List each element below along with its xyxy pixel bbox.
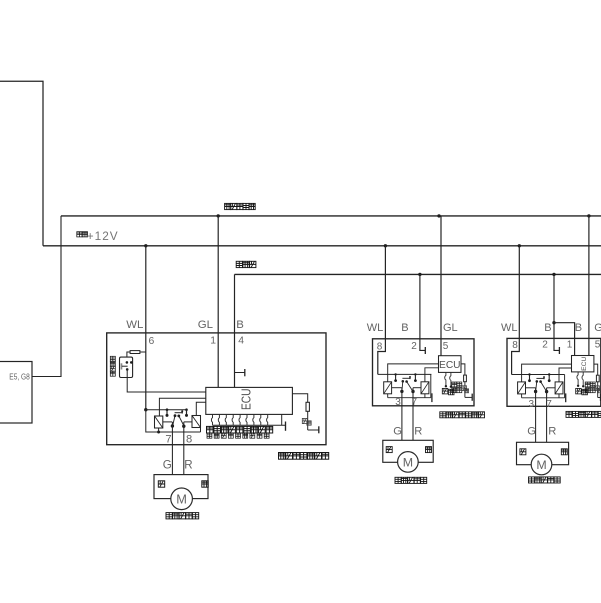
svg-text:G: G — [527, 426, 536, 438]
label 降 box2 motor — [426, 447, 432, 453]
rocker bar box3 — [536, 377, 544, 379]
wire GL box2 to ECU — [440, 216, 442, 356]
label 右后电动窗开关 — [566, 411, 572, 417]
terminal wire and bar box1 right — [308, 429, 319, 431]
wire relay K3 to pole box2 — [392, 387, 402, 389]
labels under ECU box2 — [442, 388, 448, 394]
node junction dot GL box2 on data bus — [437, 214, 440, 217]
wire ECU to resistor R4 box3 — [594, 364, 598, 375]
svg-text:GL: GL — [594, 322, 601, 334]
label 降 box3 motor — [561, 449, 567, 455]
svg-text:3: 3 — [395, 397, 401, 408]
label 右前电动窗开关 — [440, 412, 446, 418]
fixed contact down box2 — [414, 373, 416, 375]
svg-text:5: 5 — [595, 340, 601, 351]
svg-text:WL: WL — [501, 322, 518, 334]
labels motor outputs under ECU box1 row1 — [207, 426, 214, 433]
relay K3 coil box2 — [384, 382, 392, 394]
node junction dot B box2 on ground bus — [418, 273, 421, 276]
wire pole to motor R box2 — [412, 388, 414, 441]
wire resistor R3 down box2 — [464, 382, 466, 398]
wire relay K2 to pole box1 — [184, 421, 192, 423]
fixed contact up box1 — [166, 408, 169, 411]
svg-text:G: G — [163, 459, 172, 472]
svg-text:B: B — [236, 319, 244, 331]
label 接地线 — [236, 261, 242, 267]
svg-text:M: M — [403, 455, 413, 469]
wire WL box1 — [145, 246, 147, 410]
pole node 7 box1 — [171, 424, 174, 427]
svg-text:6: 6 — [149, 336, 155, 347]
node B branch box3 — [552, 321, 555, 324]
node junction dot WL box2 on power bus — [384, 244, 387, 247]
wire relay K5 to pole box3 — [526, 387, 536, 389]
svg-text:8: 8 — [186, 434, 192, 446]
connector box E5 G8 — [0, 362, 32, 424]
pole node 7 box2 — [411, 390, 414, 393]
wire coil common to WL box1 — [146, 410, 201, 432]
relay K5 coil box3 — [518, 382, 526, 394]
resistor R3 box2 — [464, 375, 467, 382]
label 锁止开关 lock switch rotated — [110, 356, 115, 361]
svg-text:WL: WL — [126, 319, 143, 331]
svg-text:E5, G8: E5, G8 — [9, 371, 30, 381]
label ground chars box2 — [462, 386, 467, 391]
rocker bar box1 — [175, 412, 183, 414]
svg-text:2: 2 — [542, 340, 548, 351]
svg-text:5: 5 — [443, 341, 449, 352]
wire bus communication data line 通讯数据线 — [61, 215, 601, 217]
lever contact dots box1 — [174, 414, 177, 417]
pole node 3 box3 — [534, 390, 537, 393]
svg-text:7: 7 — [412, 397, 418, 408]
relay K1 coil box1 — [155, 416, 163, 428]
relay K6 coil box3 — [555, 382, 563, 394]
wire ECU right pin box1 — [281, 414, 283, 425]
wire resistor R2 down box1 — [307, 411, 309, 430]
svg-text:1: 1 — [567, 340, 573, 351]
wire relay K1 to pole box1 — [163, 421, 172, 423]
label 左前电动窗开关 — [279, 453, 286, 460]
motor box M2 — [383, 440, 433, 462]
svg-text:G: G — [393, 426, 402, 438]
node WL contact row junction box1 — [144, 408, 147, 411]
terminal bar relay area box2 — [431, 393, 433, 402]
wire relay K6 to pole box3 — [547, 387, 556, 389]
fixed contact down box1 — [185, 408, 188, 411]
wire from E5 G8 box to data bus — [32, 216, 61, 377]
node junction dot GL box3 on data bus — [587, 214, 590, 217]
lever arms box2 — [401, 381, 404, 391]
label ground chars box1 — [302, 418, 307, 423]
resistor R2 box1 — [306, 402, 309, 411]
switch module box U1 左前电动窗开关 — [107, 333, 326, 445]
wire GL box3 to ECU — [588, 216, 590, 356]
fixed contact down box3 — [548, 373, 550, 375]
svg-text:8: 8 — [512, 340, 518, 351]
svg-text:4: 4 — [238, 335, 244, 346]
ECU U6 box3 — [572, 356, 594, 372]
node junction dot WL box3 on power bus — [518, 244, 521, 247]
svg-text:R: R — [184, 459, 192, 472]
relay K4 coil box2 — [421, 382, 429, 394]
wire resistor R4 down box3 — [597, 382, 599, 398]
resistor R1 lock switch — [130, 351, 140, 354]
motor M1 circle — [171, 488, 193, 510]
lever arms box3 — [536, 381, 537, 391]
wire lock switch to ECU — [127, 369, 206, 392]
label ground chars box3 — [595, 386, 600, 391]
pole node 8 box1 — [182, 425, 185, 428]
node junction dot GL box1 on data bus — [217, 214, 220, 217]
label 开 box1 motor — [158, 481, 164, 487]
label 电源+12V — [77, 232, 82, 237]
wire pole to motor R box3 — [546, 388, 548, 443]
wire B box1 to ECU — [234, 274, 236, 387]
ECU pins box3 — [577, 372, 578, 385]
wire relay K4 to pole box2 — [413, 387, 421, 389]
svg-text:B: B — [401, 322, 408, 334]
motor box M3 — [517, 442, 569, 464]
lever contact dots box3 — [536, 380, 539, 383]
wire B box3 with terminal hook — [554, 274, 559, 350]
node relay K1 coil bottom — [157, 431, 160, 434]
svg-text:M: M — [536, 458, 546, 472]
svg-text:1: 1 — [210, 335, 216, 346]
wire pole to motor G box3 — [535, 388, 537, 443]
label 电动窗电机 box3 — [529, 477, 535, 483]
svg-text:7: 7 — [165, 434, 171, 446]
motor box M1 — [154, 475, 208, 499]
lock switch S1 body — [120, 357, 133, 377]
svg-text:3: 3 — [529, 399, 535, 410]
wire pole to motor R box1 — [183, 422, 185, 475]
motor M2 circle — [398, 452, 419, 473]
terminal stub on B wire box1 — [235, 372, 245, 374]
motor M3 circle — [531, 454, 552, 475]
wire relay coil tops to ECU box3 — [522, 364, 572, 382]
wire pole to motor G box2 — [401, 388, 403, 441]
lever arms box1 — [173, 416, 175, 426]
svg-text:ECU: ECU — [238, 389, 253, 411]
svg-text:GL: GL — [198, 319, 213, 331]
wire right relay coil top to ECU box1 — [196, 402, 206, 415]
pole node 7 box3 — [545, 390, 548, 393]
wire contact row box3 — [512, 374, 565, 376]
wire battery feed from left edge — [0, 81, 43, 246]
wire left relay coil top to ECU box1 — [159, 398, 205, 416]
ECU pins box2 — [445, 372, 446, 385]
wire B branch to pin1 ECU box3 — [554, 323, 575, 356]
wire pole to motor G box1 — [171, 422, 173, 475]
labels motor outputs under ECU box1 row2 — [207, 433, 212, 438]
svg-text:ECU: ECU — [581, 356, 588, 370]
wire coil common box3 — [521, 394, 523, 398]
wire coil common box2 — [387, 394, 389, 398]
rocker bar box2 — [402, 377, 410, 379]
label 电动窗电机 box1 — [166, 513, 172, 519]
node junction dot WL box1 on power bus — [144, 244, 147, 247]
fixed contact up box3 — [528, 373, 530, 375]
wire bus power +12V 电源+12V — [43, 245, 601, 247]
label 降 box1 motor — [202, 481, 208, 487]
wire bus ground line 接地线 — [235, 273, 601, 275]
pole node 3 box2 — [400, 390, 403, 393]
svg-text:2: 2 — [411, 341, 417, 352]
wire resistor to lock switch — [127, 352, 130, 357]
node junction dot B box3 on ground bus — [552, 273, 555, 276]
wire WL box2 — [378, 246, 386, 375]
wire GL box1 to ECU — [217, 216, 219, 388]
terminal bar ECU rail box1 — [285, 422, 287, 431]
fixed contact up box2 — [394, 373, 396, 375]
svg-text:M: M — [176, 491, 187, 506]
label 电动窗电机 box2 — [395, 477, 401, 483]
switch module box U3 右前电动窗开关 — [373, 339, 475, 406]
svg-text:+12V: +12V — [87, 229, 119, 243]
wire ECU to resistor R3 box2 — [461, 364, 465, 375]
ECU U4 box2 — [439, 356, 462, 373]
wire ECU pin rail box1 — [213, 424, 286, 426]
wire B box2 with terminal hook — [420, 274, 425, 350]
label 开 box3 motor — [520, 449, 526, 455]
wire ECU to resistor R2 box1 — [292, 394, 307, 403]
svg-text:WL: WL — [367, 322, 384, 334]
wire contact row box2 — [378, 373, 432, 375]
ECU U2 box1 — [206, 387, 293, 414]
terminal wire and bar box2 right — [465, 396, 472, 398]
svg-text:B: B — [544, 322, 551, 334]
svg-text:ECU: ECU — [439, 360, 461, 371]
svg-text:R: R — [414, 426, 422, 438]
terminal wire and bar box3 right — [598, 397, 601, 399]
svg-text:GL: GL — [443, 322, 458, 334]
lock switch contacts — [126, 361, 129, 364]
svg-text:B: B — [575, 322, 582, 334]
lever contact dots box2 — [402, 380, 405, 383]
wire resistor to WL — [140, 351, 146, 353]
svg-text:R: R — [548, 426, 556, 438]
wire WL box3 — [512, 246, 520, 375]
relay K2 coil box1 — [192, 416, 201, 428]
wire relay coil tops to ECU box2 — [388, 364, 439, 382]
labels under ECU box3 — [576, 388, 582, 394]
label 通讯数据线 — [225, 203, 231, 209]
wire relay K2 coil bottom — [200, 428, 202, 433]
switch module box U5 右后电动窗开关 — [507, 338, 601, 406]
resistor R4 box3 — [596, 375, 599, 382]
ECU pins row box1 — [211, 414, 212, 425]
label 开 box2 motor — [386, 447, 392, 453]
svg-text:7: 7 — [546, 399, 552, 410]
terminal bar relay area box3 — [565, 393, 567, 402]
wire contact row box1 — [146, 409, 187, 411]
